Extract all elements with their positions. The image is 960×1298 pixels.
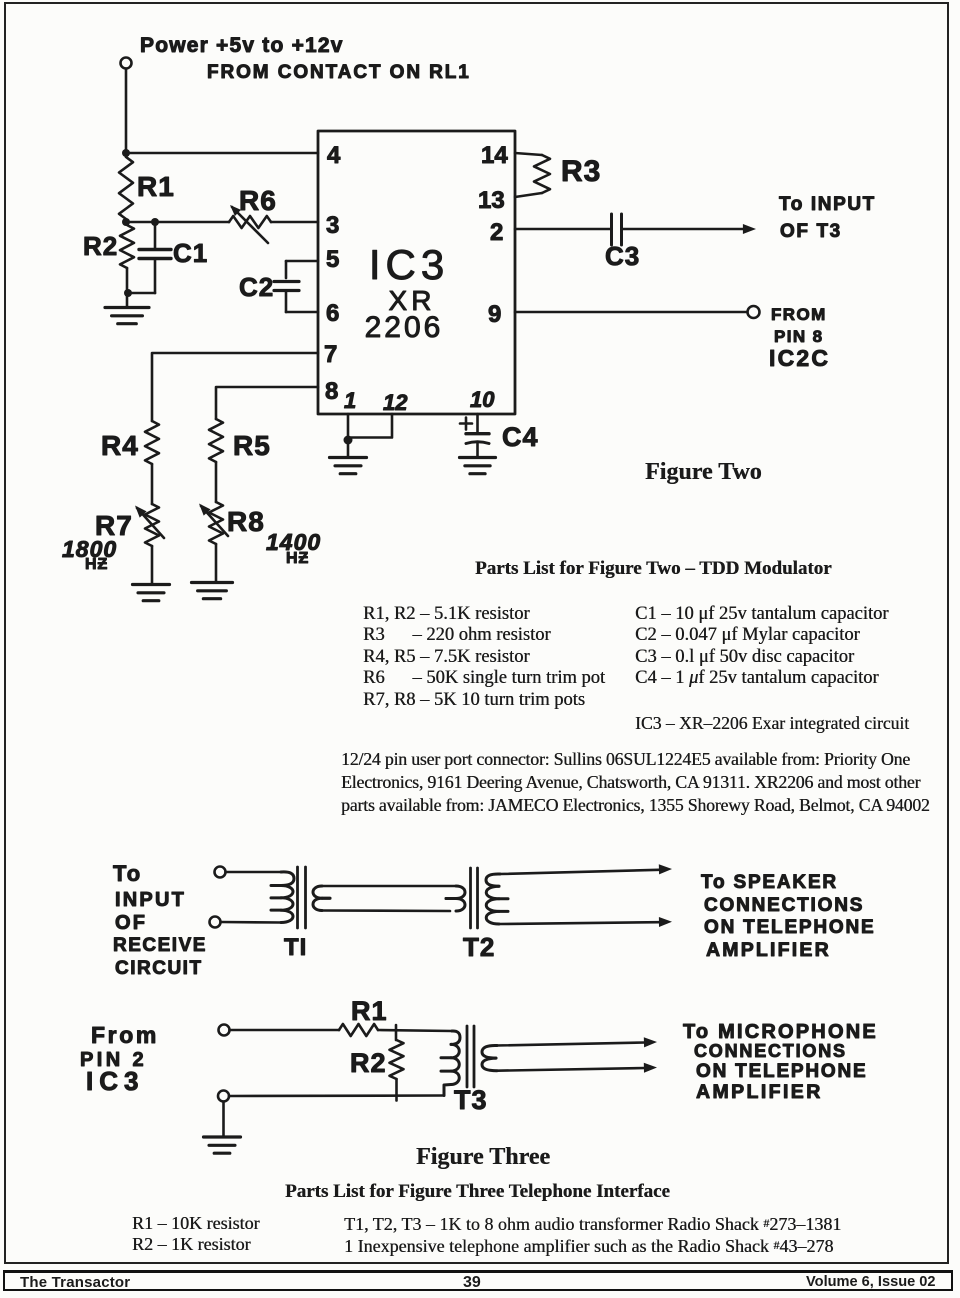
transformer T3 secondary winding xyxy=(482,1045,497,1058)
svg-text:R2: R2 xyxy=(83,231,118,261)
svg-text:IC3: IC3 xyxy=(86,1066,144,1096)
svg-text:IC2C: IC2C xyxy=(769,345,830,371)
svg-text:7: 7 xyxy=(324,341,337,368)
svg-text:To SPEAKER: To SPEAKER xyxy=(701,872,838,893)
svg-text:AMPLIFIER: AMPLIFIER xyxy=(696,1081,823,1103)
wire: pin 9 to terminal xyxy=(515,311,747,314)
svg-text:R8: R8 xyxy=(227,506,265,537)
paragraph: connector sources xyxy=(341,748,930,817)
svg-text:CONNECTIONS: CONNECTIONS xyxy=(704,895,864,916)
IC U: IC3 XR-2206 body xyxy=(318,131,515,414)
node: pin1/pin12 join xyxy=(344,436,353,445)
resistor R5 xyxy=(209,419,223,462)
svg-text:14: 14 xyxy=(481,142,508,169)
wire: R2/C1 bottom join xyxy=(127,292,155,295)
wire: bottom rail to T3 xyxy=(229,1094,444,1097)
svg-text:To INPUT: To INPUT xyxy=(779,194,876,215)
terminal: from pin 8 IC2C xyxy=(748,306,760,318)
trim pot R8 xyxy=(209,502,223,544)
svg-text:R4: R4 xyxy=(101,430,139,461)
wire: to T1 primary bottom xyxy=(221,921,282,924)
terminal: ground side xyxy=(218,1091,229,1102)
svg-text:9: 9 xyxy=(488,301,501,328)
wire: pin 10 to C4 xyxy=(476,414,479,434)
svg-text:IC3: IC3 xyxy=(369,241,449,288)
wire+arrow: T2 secondary top out xyxy=(500,870,659,874)
svg-text:13: 13 xyxy=(478,187,505,214)
svg-text:8: 8 xyxy=(325,378,338,405)
caption: Figure Two xyxy=(645,459,762,486)
wire: R6 to pin 3 xyxy=(271,221,318,224)
resistor R2 xyxy=(120,225,134,268)
ground: below R8 xyxy=(192,581,233,584)
svg-text:FROM: FROM xyxy=(771,305,827,324)
svg-text:R6: R6 xyxy=(239,185,277,216)
capacitor C1 xyxy=(154,222,157,249)
wire: T1 to T2 bottom xyxy=(322,909,450,912)
trim pot R7 xyxy=(145,504,159,546)
svg-text:C4: C4 xyxy=(502,422,539,452)
ground: below R2 xyxy=(126,293,129,307)
svg-text:FROM CONTACT ON RL1: FROM CONTACT ON RL1 xyxy=(207,62,471,83)
wire: T1 to T2 top xyxy=(322,885,456,888)
wire: R5 to R8 xyxy=(215,462,218,502)
svg-text:TΙ: TΙ xyxy=(284,934,307,961)
svg-text:AMPLIFIER: AMPLIFIER xyxy=(706,939,831,961)
caption: Figure Three xyxy=(416,1144,550,1171)
terminal: power input xyxy=(121,58,132,69)
transformer T1 core xyxy=(296,867,299,928)
resistor R3 xyxy=(515,153,542,155)
resistor R4 xyxy=(145,421,159,464)
parts list IC3 line xyxy=(635,713,909,734)
svg-text:INPUT: INPUT xyxy=(115,889,186,911)
wire: pin 12 down and left xyxy=(348,414,392,438)
wire: R7 to ground xyxy=(151,546,154,584)
fig3 parts col 2 xyxy=(344,1213,841,1257)
transformer T3 primary winding xyxy=(451,1031,460,1044)
wire: pin 7 left and down xyxy=(152,353,318,421)
transformer T3 core xyxy=(466,1026,469,1087)
wire+arrow: T3 secondary bottom out xyxy=(497,1068,645,1071)
trim pot R6 xyxy=(229,216,271,228)
svg-text:5: 5 xyxy=(326,246,339,273)
svg-text:HƵ: HƵ xyxy=(85,556,108,573)
transformer T1 secondary winding xyxy=(313,886,322,911)
svg-text:To: To xyxy=(113,861,142,886)
capacitor C4 (polarized) xyxy=(460,422,472,425)
svg-text:C1: C1 xyxy=(173,238,208,268)
ground: below pin 1 xyxy=(330,456,367,459)
svg-text:3: 3 xyxy=(326,212,339,239)
ground: fig3 xyxy=(204,1135,241,1138)
terminal: from pin 2 IC3 xyxy=(219,1025,230,1036)
wire: C3 to arrow (to input of T3) xyxy=(622,228,747,231)
svg-text:OF T3: OF T3 xyxy=(780,221,842,242)
parts list left column xyxy=(363,604,605,711)
svg-text:12: 12 xyxy=(383,390,408,415)
resistor R1 (fig3) xyxy=(339,1024,378,1036)
wire: pin 1 down xyxy=(347,414,350,457)
wire+arrow: T3 secondary top out xyxy=(497,1043,645,1046)
resistor R2 (fig3) xyxy=(390,1040,404,1079)
wire: pin 2 to C3 xyxy=(515,228,611,231)
svg-text:R1: R1 xyxy=(351,996,388,1026)
svg-text:R5: R5 xyxy=(233,430,271,461)
svg-text:Power +5v to +12v: Power +5v to +12v xyxy=(140,34,344,57)
transformer T2 secondary winding xyxy=(486,874,500,886)
svg-text:RECEIVE: RECEIVE xyxy=(113,935,207,956)
svg-text:R2: R2 xyxy=(350,1048,387,1078)
svg-text:R3: R3 xyxy=(561,155,601,188)
footer: volume xyxy=(806,1274,936,1290)
svg-text:CIRCUIT: CIRCUIT xyxy=(115,958,203,979)
svg-text:2: 2 xyxy=(490,219,503,246)
svg-text:ON TELEPHONE: ON TELEPHONE xyxy=(704,917,876,938)
transformer T2 primary winding xyxy=(456,886,465,911)
parts list right column xyxy=(635,604,888,690)
resistor R1 xyxy=(119,157,133,219)
wire: power terminal to node xyxy=(125,69,128,154)
svg-text:2206: 2206 xyxy=(365,311,444,344)
wire: R8 to ground xyxy=(215,544,218,582)
svg-text:4: 4 xyxy=(327,142,341,169)
svg-text:ON TELEPHONE: ON TELEPHONE xyxy=(696,1061,868,1082)
node: R2 tap xyxy=(395,1025,398,1040)
title: parts list figure three xyxy=(285,1181,670,1203)
svg-text:OF: OF xyxy=(115,912,147,934)
svg-text:C3: C3 xyxy=(605,241,640,271)
wire: R1 to T3 xyxy=(378,1030,452,1031)
svg-text:HƵ: HƵ xyxy=(286,550,309,567)
transformer T2 core xyxy=(469,868,472,928)
wire: terminal to ground xyxy=(222,1102,225,1137)
footer: page 39 xyxy=(463,1274,481,1292)
svg-text:C2: C2 xyxy=(239,272,274,302)
wire: R4 to R7 xyxy=(151,464,154,504)
svg-text:1: 1 xyxy=(344,388,356,413)
wire: terminal to R1 xyxy=(230,1029,340,1032)
svg-text:From: From xyxy=(91,1022,159,1048)
wire: pin 8 left and down xyxy=(216,387,318,419)
capacitor C2 xyxy=(286,260,318,263)
transformer T1 primary winding xyxy=(281,872,294,886)
wire: to T1 primary top xyxy=(226,871,282,874)
node: junction power/R1/pin4 xyxy=(122,149,130,157)
terminal: receive input bottom xyxy=(210,917,221,928)
capacitor C3 xyxy=(610,214,613,245)
svg-text:10: 10 xyxy=(470,387,495,412)
svg-text:R1: R1 xyxy=(137,171,175,202)
svg-text:6: 6 xyxy=(326,300,339,327)
title: parts list figure two xyxy=(475,558,832,580)
wire: node to pin 4 xyxy=(126,152,318,155)
node: junction R1/R2/R6 wire xyxy=(122,218,130,226)
footer rule box xyxy=(3,1270,953,1291)
svg-text:CONNECTIONS: CONNECTIONS xyxy=(694,1041,847,1061)
wire: node to trim pot R6 xyxy=(126,221,229,224)
ground: below R7 xyxy=(133,583,170,586)
footer: The Transactor xyxy=(20,1274,130,1291)
wire+arrow: T2 secondary bottom out xyxy=(499,922,659,924)
svg-text:To MICROPHONE: To MICROPHONE xyxy=(683,1021,878,1043)
terminal: receive input top xyxy=(215,867,226,878)
svg-text:T2: T2 xyxy=(463,932,495,962)
svg-text:PIN 8: PIN 8 xyxy=(774,327,824,346)
fig3 parts col 1 xyxy=(132,1213,260,1255)
ground: below C4 xyxy=(460,456,496,459)
svg-text:T3: T3 xyxy=(454,1085,488,1115)
